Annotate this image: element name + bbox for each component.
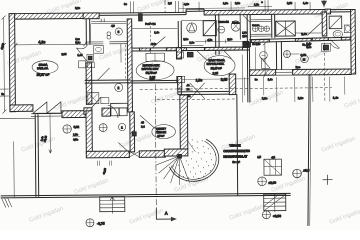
dim ticks on dashed <box>245 77 345 103</box>
svg-text:9o: 9o <box>1 92 5 96</box>
column box at divider <box>176 48 181 59</box>
section arrow top <box>323 0 325 10</box>
dim line: room A width <box>14 42 86 47</box>
stacked dims right of jog <box>186 86 193 90</box>
svg-text:3: 3 <box>118 30 120 34</box>
wall: top middle double <box>142 12 186 15</box>
dim line mid <box>177 78 250 81</box>
symbol circle E3 <box>218 26 225 33</box>
wall: bath top double <box>85 80 131 83</box>
svg-text:25,57 m²: 25,57 m² <box>37 73 50 77</box>
dim line left column <box>2 16 7 114</box>
symbol circle M <box>301 55 309 63</box>
svg-text:18,16 m²: 18,16 m² <box>211 66 222 70</box>
dashed dim line y91 <box>140 88 332 90</box>
label ellipse FEDETT TERASZ <box>152 125 176 139</box>
svg-text:1,4o: 1,4o <box>154 31 160 34</box>
svg-text:4,5o: 4,5o <box>207 39 213 42</box>
svg-text:4,6 m²: 4,6 m² <box>157 135 164 138</box>
portal columns <box>111 103 128 108</box>
symbol circle 1 <box>118 123 125 130</box>
svg-text:2,85: 2,85 <box>61 53 67 56</box>
wall E2 right double <box>215 15 219 55</box>
short line left <box>0 117 35 119</box>
svg-text:6o m²: 6o m² <box>232 160 239 164</box>
stairs left <box>100 196 125 211</box>
svg-text:Gold Ingatlan: Gold Ingatlan <box>174 176 210 194</box>
svg-text:9o: 9o <box>124 2 127 6</box>
svg-text:TERASZ: TERASZ <box>229 143 241 147</box>
svg-text:1,2o: 1,2o <box>189 41 195 44</box>
symbol fan circle with triangle <box>187 23 197 33</box>
svg-text:m m m: m m m <box>252 25 259 27</box>
door leaf hall to terrace <box>140 115 158 131</box>
svg-text:2,1o: 2,1o <box>75 6 81 10</box>
svg-text:-0,75: -0,75 <box>97 222 105 226</box>
wall: room A bottom east segment <box>62 111 92 118</box>
winder fan lines <box>155 156 189 185</box>
tick marks below south wall <box>97 161 111 166</box>
symbol stove black square <box>323 45 328 50</box>
svg-text:kamra fut: kamra fut <box>218 21 229 24</box>
line terrace east edge <box>236 94 239 195</box>
svg-text:NAGY SZoBA: NAGY SZoBA <box>209 58 226 62</box>
svg-text:±0,00: ±0,00 <box>269 181 277 185</box>
svg-text:45: 45 <box>141 121 144 124</box>
svg-text:Gold Ingatlan: Gold Ingatlan <box>329 208 360 226</box>
symbol window X-square szoba <box>276 21 296 36</box>
symbol X-square E2 <box>203 21 216 36</box>
wall: terrace L vertical hatched <box>180 95 188 149</box>
wall: E row divider y48 <box>132 47 249 51</box>
svg-text:2: 2 <box>117 86 119 90</box>
symbol black square hall <box>187 52 193 57</box>
section arrow bottom <box>156 208 171 219</box>
wall: middle south line <box>131 80 178 83</box>
symbol circle E4 <box>260 51 268 59</box>
door gap leaf divider <box>152 37 165 48</box>
svg-text:NAPPALI+ETK: NAPPALI+ETK <box>207 62 225 66</box>
svg-text:2,4: 2,4 <box>141 125 145 128</box>
symbol toilet <box>333 30 343 37</box>
pointer line szoba <box>295 32 325 35</box>
wall: kitchen chimney block <box>83 13 99 19</box>
wall block top right corner <box>325 9 331 14</box>
svg-text:Gold Ingatlan: Gold Ingatlan <box>344 92 360 110</box>
kitchen counter line <box>91 21 126 23</box>
svg-text:PADLoJA: PADLoJA <box>37 66 48 70</box>
svg-text:+0,45: +0,45 <box>103 167 108 174</box>
wall: E3 right double <box>247 15 250 48</box>
svg-text:Gold Ingatlan: Gold Ingatlan <box>229 204 265 222</box>
wall: vestibule south east hatched <box>139 151 165 158</box>
svg-text:KoNYHA+ETK: KoNYHA+ETK <box>143 63 160 67</box>
dashed vertical x325 <box>323 43 326 102</box>
svg-text:2,1o: 2,1o <box>183 38 189 41</box>
wall: vestibule south west hatched <box>86 151 129 158</box>
svg-text:4,2o: 4,2o <box>38 40 45 44</box>
svg-text:2,1o: 2,1o <box>298 96 304 100</box>
dashed line hall <box>149 22 151 55</box>
svg-text:1c, 12c: 1c, 12c <box>302 43 311 46</box>
symbol level circle vestibule <box>99 124 107 132</box>
svg-text:Pad + fut: Pad + fut <box>145 23 155 26</box>
symbol circle 2 <box>115 83 123 91</box>
window E south <box>276 70 293 76</box>
label ellipse SZOBA <box>32 61 58 74</box>
washbasin box <box>93 46 103 54</box>
stairs right <box>264 194 286 211</box>
svg-text:1,4o: 1,4o <box>333 96 339 100</box>
wall: room A bottom west segment <box>10 105 33 112</box>
svg-text:2,25: 2,25 <box>221 78 228 82</box>
svg-text:P,ce: P,ce <box>296 66 301 69</box>
svg-text:Gold Ingatlan: Gold Ingatlan <box>29 206 65 224</box>
round terrace steps dots <box>173 139 216 182</box>
label ellipse NAPPALI <box>204 56 235 76</box>
small double circles <box>107 32 111 36</box>
door arc bath <box>330 40 339 49</box>
door triangle E4 <box>262 58 271 68</box>
jog box stub <box>178 76 182 89</box>
wall: right top hatched <box>351 9 356 74</box>
cupboard box hall <box>146 53 165 61</box>
boiler blob <box>231 21 240 31</box>
landing diagonal <box>187 140 195 152</box>
wall: vestibule east hatched <box>130 112 135 152</box>
wall: room A top hatched <box>9 13 84 19</box>
door: entrance leaf <box>108 105 130 154</box>
svg-text:Gold Ingatlan: Gold Ingatlan <box>137 0 173 14</box>
wall column jog hatched <box>229 74 236 95</box>
svg-text:2,6o: 2,6o <box>151 43 157 46</box>
wall: kitchen right hatched <box>127 19 132 112</box>
svg-text:±0,00: ±0,00 <box>0 42 5 49</box>
door: bath leaf <box>98 68 110 80</box>
svg-text:A: A <box>165 211 168 216</box>
wall: terrace L horizontal hatched <box>164 149 188 156</box>
svg-text:SZoBA: SZoBA <box>39 63 48 67</box>
wall: bath bottom hatched <box>84 108 92 115</box>
level circle left <box>63 125 71 133</box>
kitchen counter west edge <box>85 23 127 44</box>
svg-text:2,95: 2,95 <box>287 1 293 5</box>
symbol sink <box>344 25 351 33</box>
bath fixtures <box>88 93 99 104</box>
svg-text:kamra: kamra <box>232 21 240 24</box>
east WC room lines <box>251 20 272 36</box>
symbol circle 3 <box>115 28 122 35</box>
west terrace wall vertical <box>35 114 39 197</box>
door leaf E3 <box>243 15 250 22</box>
room E4 walls <box>247 42 282 103</box>
svg-text:2,4o: 2,4o <box>301 32 307 36</box>
svg-text:1,5o: 1,5o <box>196 78 203 82</box>
symbol level circle right <box>293 169 302 178</box>
svg-text:1,9o: 1,9o <box>223 1 229 5</box>
svg-text:1,4o: 1,4o <box>303 1 309 5</box>
symbol black square kitchen <box>88 56 92 60</box>
wall: top band east hatched <box>204 10 325 15</box>
svg-text:4,6: 4,6 <box>111 25 115 28</box>
level circle below left stairs <box>86 219 94 227</box>
door: room A east leaf <box>76 45 87 62</box>
svg-text:1,5: 1,5 <box>257 155 261 159</box>
svg-text:4,1o: 4,1o <box>184 2 190 6</box>
svg-text:2,6: 2,6 <box>168 1 172 5</box>
wall: E bottom east hatched <box>293 69 352 75</box>
dim ticks left edge <box>0 89 9 96</box>
left edge ground hatch <box>2 198 12 207</box>
round terrace steps arcs <box>169 139 219 181</box>
window: room A south casements <box>33 102 61 113</box>
svg-text:0,02: 0,02 <box>74 125 80 129</box>
svg-text:1,2o: 1,2o <box>254 2 260 6</box>
svg-text:Gold Ingatlan: Gold Ingatlan <box>129 208 165 226</box>
wall: E rooms divider east <box>249 37 355 42</box>
newel post <box>178 154 182 158</box>
wall: szoba west <box>272 14 275 38</box>
svg-text:0,8o: 0,8o <box>75 40 81 44</box>
door leaf bathroom to szoba <box>307 22 322 36</box>
symbol black dot <box>132 132 136 136</box>
svg-text:Gold Ingatlan: Gold Ingatlan <box>271 176 307 194</box>
door X at jog <box>190 83 205 99</box>
door leafs below divider <box>196 50 231 61</box>
kamra east partition <box>239 14 241 39</box>
wall jog down <box>178 77 182 95</box>
wall: room A left hatched <box>9 14 15 112</box>
label ellipse KONYHA <box>136 61 174 80</box>
thin verticals dims <box>241 54 243 102</box>
svg-text:0,5o: 0,5o <box>73 138 79 141</box>
wall: middle south lower double <box>178 91 230 94</box>
svg-text:HIDEGBURKoLAT: HIDEGBURKoLAT <box>223 154 247 158</box>
svg-text:2,8o: 2,8o <box>150 78 155 81</box>
wall: kitchen top double <box>99 13 142 16</box>
niche box room A door <box>79 61 86 68</box>
pillar grid right <box>264 159 282 175</box>
svg-text:9o: 9o <box>255 78 258 81</box>
long right vertical <box>307 74 311 226</box>
wall: E bottom west hatched <box>250 70 276 76</box>
svg-text:2,1o: 2,1o <box>227 38 233 41</box>
dim strip x265 <box>263 41 267 77</box>
svg-text:2,1o: 2,1o <box>262 96 268 100</box>
svg-text:1,o5: 1,o5 <box>77 54 83 57</box>
level circle right stairs top <box>258 177 267 186</box>
room E2 west wall <box>178 21 181 48</box>
svg-text:13,76 m²: 13,76 m² <box>146 71 157 75</box>
pier <box>102 108 111 116</box>
svg-text:9o 2,1o: 9o 2,1o <box>252 43 261 46</box>
symbol shower square <box>329 16 342 29</box>
room E2 bottom <box>181 44 203 46</box>
east WC fixtures <box>252 26 258 32</box>
svg-text:1,5o: 1,5o <box>73 133 79 136</box>
long terrace line <box>1 193 291 198</box>
svg-text:1: 1 <box>121 125 123 129</box>
chimney stub dark <box>139 14 143 21</box>
wall: bath top right thin double <box>330 10 351 12</box>
wall: vestibule west hatched <box>86 111 92 154</box>
svg-text:2,25: 2,25 <box>213 71 219 75</box>
svg-text:+0,06: +0,06 <box>273 214 281 218</box>
symbol circled cross right of E4 <box>283 51 290 58</box>
svg-text:Gold Ingatlan: Gold Ingatlan <box>295 48 331 66</box>
svg-text:Gold Ingatlan: Gold Ingatlan <box>74 178 110 196</box>
section line A vertical <box>155 84 156 209</box>
wall: top step up <box>186 9 204 15</box>
svg-text:2,1o: 2,1o <box>235 1 241 5</box>
wall: bath west hatched <box>322 12 327 36</box>
svg-text:CSUSZAS MENTES: CSUSZAS MENTES <box>223 149 250 153</box>
wall: room A right upper <box>86 18 90 44</box>
svg-text:4,5: 4,5 <box>271 155 275 159</box>
plumbing cross <box>323 175 333 185</box>
wall: room A right lower hatched <box>86 63 92 105</box>
svg-text:1,4o: 1,4o <box>268 78 274 81</box>
level circle right stairs bottom <box>262 211 270 219</box>
svg-text:Gold Ingatlan: Gold Ingatlan <box>321 136 357 154</box>
svg-text:1,m: 1,m <box>75 37 79 41</box>
corridor top lines <box>132 27 177 29</box>
flue stub <box>101 19 104 23</box>
door leaf bath south <box>92 97 101 107</box>
small labeled square <box>88 63 95 68</box>
top dimension ticks <box>131 0 311 13</box>
